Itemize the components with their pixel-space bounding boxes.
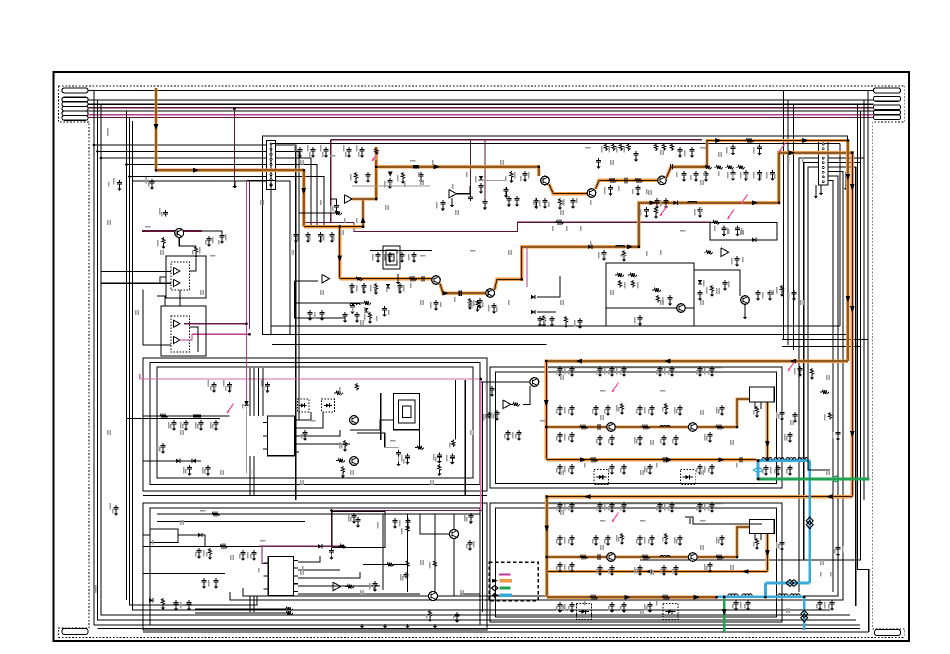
caps at FL2 right bbox=[781, 540, 783, 542]
resistor R22 at U2D bbox=[704, 250, 713, 254]
res R41 on Q6 row bbox=[578, 425, 588, 429]
bus wire top black 1 bbox=[88, 90, 874, 92]
caps cluster left of U6 bbox=[198, 548, 200, 550]
green arrow down bbox=[722, 609, 727, 616]
res R42 on Q6 row right bbox=[640, 425, 650, 429]
wire cluster row y250 bbox=[370, 250, 432, 252]
filter block FL1 bbox=[750, 387, 775, 402]
row y546 wire bbox=[143, 545, 259, 547]
legend row 2 orange arrow bbox=[492, 579, 498, 583]
purple local supply horizontal bbox=[142, 230, 202, 232]
bottom-right section box inner bbox=[496, 508, 777, 617]
caps at FL1 right bbox=[781, 410, 783, 412]
caps hanging right chain bbox=[732, 170, 734, 172]
IC U5 right pin wires bbox=[299, 412, 312, 420]
transistor Q16 mid band bbox=[530, 378, 539, 387]
orange arrow tangle down bbox=[301, 188, 306, 195]
diode D30 right bbox=[531, 295, 535, 299]
opamp U2D right bbox=[721, 248, 729, 257]
shield box top right bbox=[710, 223, 777, 240]
mid-right section box inner bbox=[496, 372, 777, 484]
caps under bottom bottom rail bbox=[559, 602, 561, 604]
cap C a1 bbox=[351, 303, 353, 305]
capacitor C15 opamp U2A input bbox=[336, 203, 338, 205]
orange arrow mid bottom 2 bbox=[666, 457, 673, 462]
capacitor C91 in volume box bbox=[357, 517, 359, 519]
capacitor C2 left strip bbox=[151, 179, 153, 181]
res under FL2 bbox=[755, 538, 758, 546]
orange mid-section row through Q6 Q7 bbox=[546, 425, 737, 428]
wire bottom to legend bbox=[460, 560, 480, 594]
caps under bottom top rail C bbox=[659, 502, 661, 504]
caps under mid top rail D bbox=[699, 366, 701, 368]
orange arrow FL1 down bbox=[765, 441, 770, 448]
top section inner right vertical bbox=[839, 143, 841, 326]
capacitor on Q4-Q5 wire bbox=[458, 290, 460, 296]
orange bottom section bottom rail bbox=[547, 596, 717, 599]
solid box around buffer U4 bbox=[161, 306, 206, 356]
orange arrow bottom bottom 1 bbox=[624, 595, 631, 600]
gray ghost line bottom section bbox=[548, 503, 723, 505]
cap far right bottom bbox=[837, 545, 839, 547]
ground stub U2C bbox=[451, 198, 453, 203]
caps under bottom top rail A bbox=[559, 502, 561, 504]
resistor R15 under orange bbox=[510, 171, 513, 179]
shield box mid right bbox=[606, 263, 694, 326]
diode D22 bottom-left bbox=[149, 598, 153, 602]
coil L3 bottom bbox=[350, 303, 360, 305]
res_h R35 bbox=[336, 459, 345, 463]
orange wire into filter FL2 bbox=[737, 527, 750, 557]
cap C40 bbox=[162, 443, 164, 445]
cyan coil row bottom bbox=[717, 595, 805, 598]
cluster caps under top box edge A bbox=[299, 147, 301, 149]
capacitor C21 under orange bbox=[524, 171, 526, 173]
orange tangle up branch bbox=[352, 199, 363, 227]
orange arrow right-rail down2 bbox=[850, 184, 855, 191]
left rail wire 5 bbox=[130, 118, 258, 605]
orange arrow bottom mid 1 bbox=[645, 569, 652, 574]
orange wire top-left horizontal through CN1 bbox=[156, 168, 304, 171]
res under Q5 bbox=[476, 300, 479, 308]
orange wire Q4 to Q5 bbox=[440, 284, 486, 294]
purple wire horizontal to volume bbox=[332, 510, 484, 512]
capacitor C11 tangle bbox=[295, 232, 297, 234]
wire row y433 to can bbox=[357, 433, 385, 448]
maroon lower rail step bbox=[354, 222, 590, 231]
caps bottom-left bbox=[175, 600, 177, 602]
wire row y303 bbox=[294, 302, 362, 304]
resistor R61 on maroon bbox=[554, 220, 564, 224]
buffer U4a bbox=[174, 320, 180, 327]
caps far right cluster bbox=[757, 290, 759, 292]
orange bottom-right section top rail bbox=[547, 497, 853, 598]
dense gray label scatter round 2 bbox=[296, 152, 298, 157]
CN1 ground stub bbox=[234, 181, 236, 184]
bead on jog bbox=[689, 518, 691, 524]
maroon drop 2 bbox=[484, 140, 486, 199]
cap cluster at FL1 bbox=[709, 432, 711, 434]
labels under y416 bbox=[168, 422, 170, 429]
orange arrow branch down bbox=[337, 256, 342, 263]
labels bottom mid bbox=[377, 522, 379, 529]
cluster res/caps top edge C bbox=[654, 143, 657, 151]
orange wire y167 right bbox=[376, 165, 539, 168]
op-amp U2B in 2nd row bbox=[322, 274, 330, 283]
transistor Q1 bbox=[541, 176, 550, 185]
caps under mid top rail B bbox=[599, 366, 601, 368]
mid-left section box mid bbox=[150, 363, 480, 485]
wires from D30 D31 right bbox=[537, 276, 560, 297]
mid-left extra bottom lines bbox=[143, 495, 487, 497]
resistor R20 under y203 bbox=[654, 207, 657, 215]
purple wire down to C volume bbox=[331, 511, 333, 547]
res R53 before FL2 bbox=[714, 555, 724, 559]
bus wire top black 3 bbox=[88, 103, 874, 105]
right rail wire 1 bbox=[863, 100, 865, 500]
orange drop to Q1 bbox=[537, 167, 540, 176]
bus wire maroon VCC1 bbox=[88, 107, 874, 109]
CN2 ground stubs bbox=[815, 185, 817, 194]
resistor R11 at opamp input bbox=[333, 211, 342, 215]
caps under mid top rail E bbox=[799, 366, 801, 368]
diode D2 vertical bbox=[479, 176, 483, 180]
resistor chain right top y167 bbox=[703, 165, 712, 169]
verticals below IC U6 bbox=[249, 595, 251, 612]
wires in shield bbox=[606, 307, 677, 309]
transistor Q4 bbox=[432, 276, 441, 285]
diode D5 on y247 bbox=[588, 245, 592, 249]
caps below Q8 row bbox=[559, 562, 561, 564]
cap C on 2nd row bbox=[421, 276, 423, 282]
orange arrow mid top rail 1 bbox=[575, 359, 582, 364]
wire Q10 collector bbox=[179, 238, 196, 247]
res R63 at U8 out bbox=[345, 585, 354, 589]
capacitor C31 under y203 bbox=[646, 207, 648, 209]
maroon drop 1 bbox=[470, 140, 472, 195]
orange arrow FL2 down bbox=[765, 550, 770, 557]
res R28 right of shield bbox=[710, 285, 713, 293]
bottom edge caps row bbox=[539, 316, 541, 318]
upper components above Q6 row bbox=[559, 405, 561, 407]
top section extra bottom line left bbox=[272, 343, 546, 345]
box around volume circuit bbox=[332, 511, 385, 547]
buffer input wire 2 bbox=[101, 282, 171, 284]
stub lines to right rails 2 bbox=[782, 346, 861, 348]
probe pink U2D bbox=[728, 210, 735, 220]
orange arrow y203 right1 bbox=[649, 200, 656, 205]
caps under y247 bbox=[603, 250, 605, 252]
cyan bottom drop bbox=[803, 597, 806, 630]
orange wire Q5 up to row y246.8 bbox=[495, 153, 853, 497]
orange arrow mid left down bbox=[544, 400, 549, 407]
wire y564 bbox=[363, 564, 408, 566]
diode D1 under y167 bbox=[388, 172, 392, 176]
caps under Q5 chain bbox=[493, 303, 495, 305]
gray cap below can bbox=[398, 450, 400, 452]
magenta jog from U4b bbox=[180, 334, 192, 340]
caps below Q6 row bbox=[559, 432, 561, 434]
ifcan T2 ground bbox=[397, 274, 399, 280]
outer border frame bbox=[54, 72, 910, 641]
cap C33 right of shield bbox=[699, 290, 701, 292]
bus wire dark under bbox=[88, 117, 874, 119]
res R52 on Q8 row right bbox=[640, 555, 650, 559]
right rail wire 2 bbox=[867, 91, 869, 481]
cap cluster at FL2 bbox=[709, 562, 711, 564]
CN1 fanout wires from left rails bbox=[94, 144, 267, 146]
capacitor C14 under opamp U2A bbox=[331, 232, 333, 234]
dashed filter CF2 bbox=[322, 399, 335, 412]
purple wire IC2 feed bbox=[259, 545, 345, 547]
orange arrow bottom top rail 2 bbox=[826, 494, 833, 499]
cyan jog horizontal bbox=[765, 582, 809, 585]
capg C80 bbox=[374, 581, 376, 583]
wires bottom rows bbox=[195, 608, 284, 610]
orange arrow right-rail down3 bbox=[846, 296, 851, 303]
caps on top edge bbox=[394, 518, 396, 520]
orange arrow top-left right bbox=[193, 168, 200, 173]
orange arrow top rail right2 bbox=[802, 138, 809, 143]
orange arrow mid top rail 3 bbox=[789, 359, 796, 364]
verticals below IC U5 bbox=[249, 456, 251, 496]
gray ghost line mid section bbox=[548, 367, 723, 369]
res R60 on top edge bbox=[210, 512, 220, 516]
res network in shield 2 bbox=[652, 288, 661, 292]
pink wire corner down bbox=[480, 379, 482, 511]
cap C50 on Q6 row bbox=[597, 424, 599, 430]
board outline dashed left segment bbox=[59, 86, 90, 638]
caps bottom-left 2 bbox=[203, 578, 205, 580]
probe pink shield bbox=[660, 207, 667, 217]
maroon lower rail left bbox=[303, 221, 355, 223]
resistor R18 mid chain bbox=[633, 179, 643, 183]
orange wire Q2 to Q3 bbox=[596, 180, 658, 189]
orange feed wire from top bbox=[154, 88, 157, 170]
dashed filter CF6 bbox=[680, 470, 695, 485]
coil L5 on Q8 row bbox=[660, 555, 670, 557]
res R37 vertical right bbox=[452, 440, 455, 448]
orange mid-section bottom rail bbox=[546, 458, 756, 461]
caps under y203 right bbox=[699, 207, 701, 209]
small res on purple y546 bbox=[338, 545, 346, 549]
caps under bottom top rail B bbox=[599, 502, 601, 504]
res R61b on y546 bbox=[218, 545, 228, 549]
res R32 mid bbox=[343, 440, 346, 448]
pink left corner bbox=[139, 374, 141, 379]
green diamond marker bbox=[831, 476, 841, 482]
capacitor C3 left strip bbox=[164, 210, 166, 212]
orange arrow bottom mid 2 bbox=[742, 569, 749, 574]
mid-right section box outer bbox=[490, 367, 782, 488]
resistor R17 on Q2-Q3 wire bbox=[607, 179, 617, 183]
CN1 right fanout wires turning down bbox=[275, 145, 295, 500]
connector J1 top-left ribbon bars bbox=[62, 88, 88, 93]
caps under Q4 bbox=[435, 300, 437, 302]
cyan double-diamond marker 1 bbox=[806, 517, 813, 529]
caps right of Q17 bbox=[469, 540, 471, 542]
legend row 1 magenta bbox=[499, 574, 511, 576]
wire can T1 to left bbox=[350, 420, 394, 430]
cap C41 under CF1 bbox=[304, 430, 306, 432]
cyan double-diamond marker 3 bbox=[801, 610, 808, 622]
res R65 bbox=[428, 610, 431, 618]
orange wire FL1 down bbox=[766, 402, 769, 460]
resistor R5 near Q10 bbox=[194, 246, 197, 254]
opamp U8 bottom-left bbox=[333, 582, 341, 591]
capacitor C20 gray net bbox=[505, 187, 507, 189]
mid-left section box inner bbox=[157, 367, 473, 478]
transistor Q13 right bbox=[741, 296, 750, 305]
extra gray labels scatter bbox=[300, 160, 302, 165]
pink long horizontal wire bbox=[140, 378, 481, 380]
capacitor C1 left strip bbox=[119, 180, 121, 182]
res R62 bottom-left bbox=[161, 598, 164, 606]
top section outer box bbox=[263, 136, 848, 334]
opamp U7 mid band bbox=[503, 400, 511, 409]
orange arrow top feed bbox=[154, 124, 159, 131]
top bus feed verticals to top section bbox=[783, 91, 785, 341]
diode D3 on y203 bbox=[674, 201, 678, 205]
diode D8 pair on y461 bbox=[176, 459, 180, 463]
stub lines to right rails 1 bbox=[782, 339, 868, 341]
orange arrow y167 bbox=[434, 164, 441, 169]
bus wire magenta VCC2 bbox=[88, 114, 874, 116]
res R66 vertical bbox=[542, 315, 545, 323]
dense gray label scatter round 3 bbox=[556, 370, 558, 375]
IF can T1 mid-left bbox=[394, 394, 420, 430]
right rail wire 4 bbox=[640, 111, 861, 560]
CN2 right fanout wires turning down bbox=[828, 157, 865, 159]
transistor Q9 bbox=[689, 553, 698, 562]
res on mid bottom rail bbox=[588, 458, 598, 462]
orange link opamp out to vertical bbox=[352, 197, 376, 200]
bottom internal wire 2 bbox=[98, 628, 861, 630]
IC U6 pin wires right bbox=[298, 556, 320, 562]
legend row 3 green bar bbox=[500, 587, 511, 590]
orange arrow mid bottom 3 bbox=[718, 457, 725, 462]
gray label LF bbox=[716, 288, 718, 294]
transistor Q15 mid-left bbox=[350, 457, 359, 466]
probe mid2 bbox=[612, 383, 619, 393]
gray continuation below D10 bbox=[246, 405, 248, 473]
buffer U3b bbox=[174, 279, 180, 286]
transistor Q10 on purple bbox=[175, 229, 184, 238]
coils on cyan row bottom bbox=[728, 594, 738, 596]
row y461 wire bbox=[143, 460, 201, 462]
cyan coil row mid bbox=[758, 459, 810, 462]
res row y303 bbox=[362, 301, 371, 305]
diode D32 vertical bbox=[364, 308, 368, 312]
filter block FL2 bbox=[750, 520, 775, 534]
wire gray link tangle bbox=[352, 185, 430, 187]
res network in shield bbox=[615, 273, 624, 277]
orange arrow bottom left down bbox=[544, 526, 549, 533]
purple wire vertical from bus bbox=[234, 109, 236, 184]
magenta stub vertical near Q5 bbox=[526, 247, 528, 287]
capacitor C23 at U2C bbox=[442, 200, 444, 202]
pink rail cap drops bbox=[213, 382, 215, 384]
junction dots on orange route bbox=[338, 225, 341, 228]
cap C29 right of Q3 bbox=[670, 164, 672, 170]
left wires of U2B bbox=[294, 280, 318, 282]
transistor Q7 bbox=[689, 423, 698, 432]
buffer U3a bbox=[174, 267, 180, 274]
transistor Q17 bottom mid bbox=[450, 530, 459, 539]
purple pair vertical magenta bbox=[246, 181, 248, 335]
pink probe top D bbox=[779, 143, 786, 153]
dashed filter CF5 bbox=[594, 470, 609, 485]
diode D31 right bbox=[531, 310, 535, 314]
top edge wires bottom-left bbox=[157, 513, 480, 515]
diode D6 under 2nd row bbox=[386, 284, 390, 288]
resistor on orange top rail bbox=[744, 139, 754, 143]
wire far right mid bbox=[808, 440, 830, 470]
caps under y250 row bbox=[377, 252, 379, 254]
orange right rail row1 down bbox=[846, 141, 849, 362]
res R34 vertical bbox=[355, 383, 358, 391]
res R27 bottom left top section bbox=[368, 312, 371, 320]
capacitor C26 under chain bbox=[610, 185, 612, 187]
maroon drop 2 capacitor bbox=[484, 199, 486, 201]
row y416 wire bbox=[143, 415, 230, 417]
IC U6 bottom-left bbox=[268, 557, 293, 596]
cyan row bottom caps bbox=[735, 600, 737, 602]
verticals to IC U5 bbox=[249, 368, 251, 416]
row y573 wire bbox=[143, 572, 225, 574]
cluster resistors under top edge B bbox=[604, 143, 607, 151]
connector CN1 body bbox=[267, 140, 276, 189]
dashed filter CF4 bbox=[663, 604, 678, 620]
left rail wire 2 bbox=[98, 100, 857, 620]
opamp U2C mid bbox=[449, 189, 457, 198]
orange wire into filter FL1 bbox=[737, 399, 750, 427]
res on bottom bottom rail bbox=[588, 595, 598, 599]
legend row 4 symbol bbox=[492, 593, 498, 598]
relay K1 wires bbox=[143, 534, 150, 536]
diode D7 right of shield bbox=[698, 280, 702, 284]
wire purple rail stub bbox=[202, 231, 222, 233]
transistor Q2 bbox=[587, 189, 596, 198]
res stack x288 bbox=[284, 607, 293, 611]
orange wire Q1 to Q2 bbox=[549, 184, 587, 194]
orange vertical drop at tangle bbox=[302, 170, 305, 226]
pink probe mid-left bbox=[227, 404, 234, 414]
legend row 2 orange bar bbox=[500, 579, 513, 582]
capacitor C18 bbox=[420, 172, 422, 174]
capacitor C19 bbox=[480, 183, 482, 185]
connector J3 bottom-left bar bbox=[62, 629, 88, 635]
orange arrow right-rail down4 bbox=[850, 306, 855, 313]
diode D10 below pink vertical bbox=[244, 401, 248, 405]
resistor R3 left strip bbox=[162, 237, 165, 245]
res R38 at U7 bbox=[511, 403, 520, 407]
res R51 on Q8 row bbox=[578, 555, 588, 559]
buffer group box U4 dashed bbox=[171, 316, 190, 352]
transistor Q6 bbox=[607, 423, 616, 432]
gray net label left bottom bbox=[95, 585, 97, 593]
board outline dashed bottom segment bbox=[59, 637, 905, 639]
res R25 on 2nd row bbox=[407, 277, 417, 281]
resistor R12 vertical on orange bbox=[375, 148, 378, 156]
maroon drop 1 capacitor bbox=[470, 195, 472, 197]
cyan left bracket bbox=[757, 461, 760, 479]
orange arrow row2 right bbox=[789, 150, 796, 155]
caps far right 2 bbox=[793, 290, 795, 292]
purple pair vertical dark bbox=[249, 181, 251, 329]
res R29 far right bbox=[780, 285, 783, 293]
capacitor C12 tangle bbox=[307, 232, 309, 234]
